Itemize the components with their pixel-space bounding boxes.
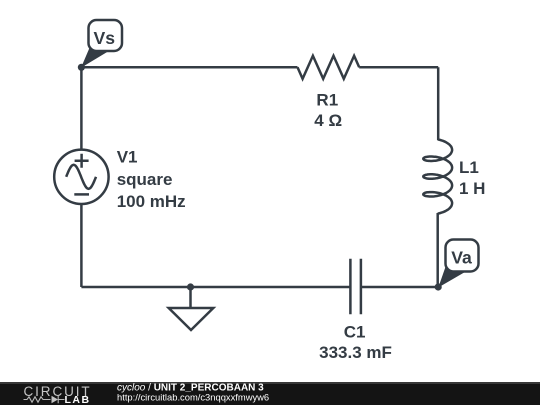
wire bottom right (Va node to capacitor) [361, 286, 438, 289]
wire bottom left (capacitor to corner) [81, 286, 350, 289]
logo diode [52, 396, 59, 403]
V1 sine waveform [66, 165, 96, 189]
node label pointer Va [438, 264, 465, 288]
svg-text:Va: Va [451, 248, 472, 268]
svg-text:100 mHz: 100 mHz [117, 192, 186, 211]
svg-text:C1: C1 [344, 322, 366, 341]
svg-text:V1: V1 [117, 148, 138, 167]
svg-text:333.3 mF: 333.3 mF [319, 343, 392, 362]
ground triangle [169, 308, 214, 330]
node label box Vs [89, 20, 123, 51]
svg-text:square: square [117, 170, 173, 189]
svg-text:http://circuitlab.com/c3nqqxxf: http://circuitlab.com/c3nqqxxfmwyw6 [117, 392, 269, 403]
svg-text:4 Ω: 4 Ω [314, 111, 342, 130]
svg-text:R1: R1 [316, 91, 338, 110]
footer bar [0, 382, 540, 405]
wire left upper [80, 67, 83, 150]
resistor R1 [298, 56, 360, 79]
svg-text:Vs: Vs [94, 28, 116, 48]
V1 minus sign [74, 193, 89, 196]
svg-text:L1: L1 [459, 158, 479, 177]
svg-text:1 H: 1 H [459, 179, 485, 198]
capacitor C1 plates [350, 259, 361, 315]
voltage source V1 circle [54, 150, 108, 204]
inductor L1 [423, 139, 452, 213]
node dot Vs [78, 64, 85, 71]
node label box Va [446, 240, 479, 272]
node dot ground [187, 283, 194, 290]
wire right upper [437, 67, 440, 140]
svg-text:LAB: LAB [65, 394, 91, 405]
V1 plus sign [75, 154, 89, 168]
wire top (Vs node to resistor) [81, 66, 297, 69]
wire top right [359, 66, 438, 69]
wire right lower [436, 213, 439, 287]
wire left lower [80, 204, 83, 287]
logo resistor squiggle [24, 397, 51, 402]
ground stem [189, 287, 192, 308]
node label pointer Vs [81, 46, 108, 68]
node dot Va [435, 283, 442, 290]
